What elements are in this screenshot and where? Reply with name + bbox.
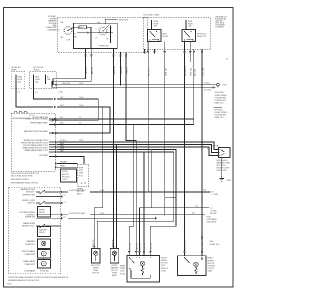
switch S2 labels — [95, 23, 109, 48]
svg-text:RELAY: RELAY — [39, 231, 46, 234]
svg-text:PUMP RLY: PUMP RLY — [25, 244, 35, 246]
svg-text:M: M — [43, 254, 45, 256]
svg-text:M: M — [43, 264, 45, 266]
svg-text:RELAY CTRL *: RELAY CTRL * — [22, 225, 35, 228]
svg-text:REAR WASH PUMP CTRL: REAR WASH PUMP CTRL — [25, 149, 49, 152]
svg-text:PPL 228: PPL 228 — [129, 243, 131, 250]
svg-text:S208: S208 — [223, 85, 227, 87]
rotary switch S1 — [63, 26, 72, 35]
svg-text:OR ACC: OR ACC — [33, 69, 41, 72]
lower box row CHIME SIG — [25, 217, 63, 220]
diode row label — [25, 240, 35, 246]
switch assembly SW1 dashed box — [57, 17, 147, 52]
rotary switch S2 — [98, 25, 109, 36]
svg-text:C200: C200 — [100, 213, 104, 215]
wire resistor to inner node — [87, 27, 92, 48]
wire branch to right splice — [151, 206, 217, 215]
svg-text:CHIME SIG: CHIME SIG — [25, 217, 36, 219]
fuse F1 — [151, 20, 159, 28]
svg-text:GRA 941: GRA 941 — [112, 239, 115, 247]
svg-text:HOT AT ALL TIMES: HOT AT ALL TIMES — [144, 14, 161, 17]
wire fuse F5 stub — [45, 81, 47, 84]
svg-text:C202: C202 — [79, 97, 83, 99]
front wiper motor label — [161, 257, 169, 272]
ground G304 — [220, 179, 231, 183]
svg-text:DK GRN 92: DK GRN 92 — [185, 240, 187, 250]
svg-text:C1: C1 — [79, 123, 81, 125]
svg-text:YEL: YEL — [60, 97, 63, 99]
wire row D long — [32, 116, 194, 120]
module box M1 — [61, 169, 77, 182]
wire switch pin D to long feed wire — [119, 52, 123, 85]
wire switch pin E down to wiper motor — [125, 52, 136, 256]
band wire 3 to washer motor box — [57, 145, 219, 155]
lower box row INT WIPE DELAY — [20, 211, 63, 217]
lower box row WASH PUMP — [22, 222, 61, 228]
wire switch pin C down to washer pump — [112, 49, 116, 249]
lower box row WIPER LO/INT — [22, 200, 63, 205]
svg-text:150: 150 — [195, 206, 198, 208]
wire relay K2 stub — [189, 42, 193, 77]
svg-text:C2: C2 — [18, 92, 20, 94]
svg-text:COMPART: COMPART — [215, 26, 225, 29]
svg-text:YEL 240: YEL 240 — [121, 67, 123, 74]
svg-text:WASHER PUMP: WASHER PUMP — [217, 161, 231, 164]
band wire 4a branch — [140, 150, 152, 256]
fuse F5 — [45, 75, 51, 82]
svg-text:WIPER PARK FEED: WIPER PARK FEED — [30, 122, 48, 125]
pump row label — [22, 250, 36, 256]
band wire WIPER HI/LO RELAY CTRL — [24, 139, 57, 143]
svg-text:FLUID: FLUID — [120, 273, 126, 275]
wire branch to washer pump left — [94, 107, 102, 249]
lamp L1 label — [91, 265, 101, 275]
lamp L2 left label — [120, 265, 126, 276]
svg-text:OFF: OFF — [60, 22, 64, 24]
svg-text:WASHER: WASHER — [39, 229, 48, 232]
svg-text:C2: C2 — [35, 92, 37, 94]
front wiper motor box — [127, 256, 160, 283]
lamp L1 wires — [93, 240, 95, 248]
washer motor box — [219, 148, 231, 158]
svg-text:WASHER: WASHER — [27, 240, 36, 243]
svg-text:WASH: WASH — [120, 265, 126, 268]
svg-text:ASSY: ASSY — [112, 274, 118, 277]
relay K2 box — [182, 30, 196, 42]
svg-text:C4: C4 — [226, 59, 228, 61]
svg-text:C202: C202 — [79, 83, 83, 85]
wire F2 to K2 — [185, 26, 187, 29]
wire int wipe to junction — [63, 212, 205, 215]
wiper switch dashed box — [11, 113, 55, 171]
svg-text:C100: C100 — [59, 92, 63, 94]
note text below wiper switch box — [11, 173, 40, 181]
band wire FRONT WIPER ON/OFF CTRL — [21, 143, 57, 146]
inner box relay R3 — [38, 207, 51, 218]
svg-text:WASHER PUMP: WASHER PUMP — [20, 188, 35, 191]
feed wire row A2 — [58, 86, 216, 91]
svg-text:ORG 144: ORG 144 — [202, 241, 204, 250]
svg-text:LOGIC: LOGIC — [62, 179, 68, 181]
svg-text:DELAY WIPER: DELAY WIPER — [215, 94, 228, 97]
flasher dashed box — [78, 164, 89, 187]
relay K2 label — [197, 34, 207, 39]
svg-text:WIPER HI SW: WIPER HI SW — [23, 195, 36, 197]
wire top corner — [105, 19, 117, 24]
right margin text block 1 — [215, 92, 228, 104]
wire row E long — [30, 122, 194, 126]
svg-text:PAGE 10-1: PAGE 10-1 — [215, 102, 224, 105]
svg-text:PNK 92: PNK 92 — [127, 67, 129, 74]
svg-text:ORG 144: ORG 144 — [203, 67, 205, 76]
wire lamp2 right feed — [116, 144, 117, 249]
svg-text:COWL: COWL — [161, 270, 166, 272]
svg-text:INT WIPE DELAY: INT WIPE DELAY — [20, 211, 36, 214]
svg-text:RELAY CTL: RELAY CTL — [197, 35, 207, 38]
relay K1 box — [148, 30, 162, 42]
switch S1 position labels — [58, 22, 79, 41]
svg-text:C1: C1 — [64, 201, 66, 203]
svg-text:DIAGRAM: DIAGRAM — [48, 28, 57, 31]
band wire 4 jog down — [57, 148, 176, 256]
splice S240 text — [207, 216, 218, 223]
inner solid box of switch assembly — [74, 23, 118, 48]
svg-text:REAR: REAR — [208, 257, 214, 260]
svg-text:BLK 941: BLK 941 — [194, 69, 196, 76]
svg-text:LOW WASH: LOW WASH — [24, 270, 35, 273]
svg-text:PAGE 10-2: PAGE 10-2 — [215, 116, 224, 119]
lamp L2 wires tick — [112, 239, 115, 248]
right margin stub wire — [214, 107, 222, 109]
svg-text:PPL 228: PPL 228 — [149, 69, 151, 76]
svg-text:LT BLU: LT BLU — [204, 83, 211, 85]
flasher label below — [77, 189, 84, 196]
lamp L2 box — [110, 249, 119, 264]
svg-text:BLK 150: BLK 150 — [140, 243, 142, 250]
front wiper motor ticks and labels — [128, 243, 153, 253]
wire fuse F3 down to row — [16, 84, 53, 107]
svg-text:COMPUTER DATA LINES AND POWER: COMPUTER DATA LINES AND POWER DISTRIBUTI… — [8, 276, 69, 279]
relay K1 label — [163, 34, 170, 39]
fuse block FB dashed box — [143, 18, 210, 50]
svg-text:TIMES: TIMES — [11, 70, 17, 72]
fuse F3 — [16, 75, 24, 85]
svg-text:LO: LO — [58, 30, 61, 32]
wire row to flasher 2 — [56, 164, 78, 168]
svg-text:RELAY: RELAY — [163, 35, 170, 38]
svg-text:GRY 93: GRY 93 — [86, 67, 88, 74]
svg-text:SWITCH: SWITCH — [27, 203, 35, 205]
svg-text:BLU 94: BLU 94 — [92, 67, 94, 74]
svg-text:B+ ⍁: B+ ⍁ — [207, 147, 212, 150]
band wire FRONT WASH PUMP CTRL — [23, 144, 56, 148]
svg-text:DK BLU: DK BLU — [60, 140, 67, 142]
washer pump motor M3 — [38, 260, 51, 269]
svg-text:* WITH WASHER RELAY OPTION: * WITH WASHER RELAY OPTION — [10, 182, 38, 185]
inner box diode D1 — [38, 239, 51, 249]
svg-text:10A: 10A — [47, 78, 51, 81]
splice end text 1 — [212, 192, 219, 197]
lamp L2 label — [111, 265, 120, 277]
svg-text:BATTERY POSITIVE FEED: BATTERY POSITIVE FEED — [24, 130, 49, 133]
wire stub from fuse block — [144, 49, 146, 53]
svg-text:REAR WASH: REAR WASH — [23, 260, 35, 263]
svg-text:PUMP MTR: PUMP MTR — [25, 264, 36, 266]
right text block under motor — [217, 160, 231, 172]
wire delay feed — [75, 32, 114, 36]
svg-text:PARK: PARK — [60, 164, 66, 167]
lower switch dashed box — [9, 187, 61, 274]
svg-text:HAZARD: HAZARD — [60, 161, 68, 164]
fuse box dashed left B — [30, 72, 57, 89]
wire relay K1 pin to lower junction — [164, 42, 168, 215]
svg-text:BLK 150: BLK 150 — [93, 240, 95, 247]
lamp L1 box — [92, 249, 101, 264]
right margin text block 2 — [215, 109, 228, 119]
svg-text:YEL 240: YEL 240 — [151, 243, 153, 250]
svg-text:SEPARATE PAGES IN THIS SECTION: SEPARATE PAGES IN THIS SECTION — [8, 279, 40, 282]
feed wire row B into switch — [53, 97, 99, 121]
svg-text:PPL: PPL — [60, 117, 63, 119]
svg-text:WIPER SW: WIPER SW — [99, 46, 109, 48]
fuse F4 — [33, 75, 41, 85]
svg-text:RIGHT SIDE: RIGHT SIDE — [217, 170, 228, 172]
svg-text:WIPER PARK SW: WIPER PARK SW — [32, 116, 48, 119]
svg-text:RELAY: RELAY — [39, 211, 46, 214]
svg-text:C1: C1 — [79, 117, 81, 119]
switch row wire y=120.4 — [26, 119, 57, 122]
svg-text:DELAY SYS: DELAY SYS — [210, 243, 221, 246]
rear wiper motor label — [208, 257, 216, 273]
svg-text:C2: C2 — [64, 217, 66, 219]
splice S302 label — [201, 237, 220, 246]
fuse box dashed left A — [11, 72, 25, 89]
svg-text:B EXTERIOR LAMP: B EXTERIOR LAMP — [69, 189, 86, 192]
svg-text:C202: C202 — [79, 105, 83, 107]
svg-text:SEE WIPER DETAILS: SEE WIPER DETAILS — [11, 178, 30, 181]
svg-text:B: B — [75, 34, 77, 36]
svg-text:SPLICE: SPLICE — [210, 213, 217, 215]
svg-text:C2: C2 — [64, 195, 66, 197]
page border frame — [4, 8, 234, 288]
svg-text:ELECTRIC: ELECTRIC — [211, 146, 221, 148]
connector C100 marks — [56, 84, 63, 94]
svg-text:SWITCH *: SWITCH * — [26, 192, 35, 194]
last row label — [24, 270, 49, 273]
svg-text:MOTOR: MOTOR — [92, 273, 99, 275]
svg-text:BRN 241: BRN 241 — [114, 66, 116, 74]
title text block — [46, 15, 58, 31]
switch row wire y=133 — [24, 130, 57, 134]
wire diode to pump link — [43, 249, 45, 250]
wire relay K2 down to front lamp switch — [183, 42, 187, 256]
rear wiper ticks and labels — [183, 240, 204, 253]
wire switch pin B down-left to connector — [52, 49, 94, 88]
wire relay K1 down to right splice row — [147, 42, 151, 193]
wire stub 2 from fuse block — [154, 49, 156, 53]
band wire REAR WIPER MOTOR CTRL — [22, 147, 56, 151]
wire fuse F2 branch down — [193, 49, 197, 124]
svg-text:FRONT WASH: FRONT WASH — [22, 250, 36, 253]
band wire 1 to washer motor box — [57, 140, 219, 149]
svg-text:DELAY WIPER: DELAY WIPER — [215, 111, 228, 114]
wire washer switch to splice right — [63, 189, 211, 192]
svg-text:WASHER: WASHER — [111, 266, 120, 269]
svg-text:INT: INT — [61, 37, 65, 39]
svg-text:WHT 92: WHT 92 — [144, 243, 146, 250]
washer motor ground wire — [221, 158, 223, 179]
washer pump motor M2 — [38, 250, 51, 259]
svg-text:LO HI: LO HI — [66, 40, 71, 42]
svg-text:INT WIPE: INT WIPE — [39, 155, 48, 157]
label HOT IN RUN — [33, 67, 44, 72]
inner box relay R4 — [38, 227, 51, 237]
svg-text:DK GRN: DK GRN — [204, 90, 212, 92]
svg-text:ASSY: ASSY — [77, 193, 83, 196]
band wire 2 to washer motor box — [57, 143, 219, 153]
lower box row WASHER PUMP — [20, 188, 62, 194]
short row to flasher — [39, 155, 84, 164]
wire branch to wiper motor pin 1 — [129, 125, 134, 256]
svg-text:17506: 17506 — [7, 284, 12, 286]
wire with arrow in switch box — [110, 26, 112, 44]
svg-text:254: 254 — [203, 190, 206, 192]
svg-text:HI: HI — [107, 39, 109, 41]
svg-text:GRA 143: GRA 143 — [164, 68, 167, 76]
svg-text:INDICATOR: INDICATOR — [207, 221, 217, 224]
band wire 5 jog down — [57, 149, 174, 248]
svg-text:C200: C200 — [100, 190, 104, 192]
svg-text:PUMP MTR: PUMP MTR — [25, 254, 36, 256]
connector arcs on box top — [14, 111, 34, 116]
band wire 5a branch to wiper motor — [143, 152, 145, 256]
svg-text:241: 241 — [192, 213, 195, 215]
wire pump link 2 — [43, 258, 45, 260]
fuse F2 — [186, 20, 194, 28]
bottom note text — [8, 276, 69, 282]
fuse block label right — [215, 17, 227, 29]
jumper wire to relay feed — [164, 197, 176, 198]
feed wire row A — [55, 83, 217, 85]
svg-text:B EXTERIOR LAMP: B EXTERIOR LAMP — [69, 212, 86, 215]
feed wire row C into switch — [53, 105, 111, 134]
wire fuse block to rear lamp switch — [201, 49, 205, 256]
svg-text:WASH PUMP: WASH PUMP — [23, 222, 36, 225]
svg-text:G304: G304 — [227, 180, 231, 182]
lower box row WIPER HI SW — [23, 195, 63, 198]
svg-text:SEE FUSE: SEE FUSE — [119, 19, 129, 21]
svg-text:GATE: GATE — [208, 270, 214, 273]
label HOT AT ALL TIMES left — [11, 66, 21, 72]
splice symbol on row A — [217, 84, 227, 87]
svg-text:LO: LO — [95, 38, 98, 40]
svg-text:C202: C202 — [79, 140, 83, 142]
wire F1 to K1 — [151, 26, 153, 29]
svg-text:LOW WASH: LOW WASH — [207, 218, 218, 221]
svg-text:FLUID SW: FLUID SW — [40, 271, 49, 273]
wire row to flasher 1 — [56, 161, 78, 165]
band wire REAR WASH PUMP CTRL — [25, 149, 57, 153]
svg-text:GRY 93: GRY 93 — [136, 243, 138, 250]
svg-text:LT GRN: LT GRN — [212, 194, 219, 196]
pump row label 2 — [23, 260, 35, 266]
washer motor pin labels — [207, 146, 220, 151]
svg-text:MULTI-FUNCTION LEVER: MULTI-FUNCTION LEVER — [11, 176, 33, 178]
resistor block R1 — [79, 26, 87, 29]
wire fuse F4 down to row — [34, 84, 54, 99]
svg-text:ORG 240: ORG 240 — [62, 83, 70, 85]
rear wiper motor box — [178, 256, 207, 276]
wire switch pin A down-left to connector — [53, 49, 88, 85]
wire switch S1 to resistor block — [73, 26, 79, 28]
svg-text:WHT 228: WHT 228 — [191, 68, 193, 76]
svg-text:PCB: PCB — [79, 175, 83, 177]
wire chime to module — [68, 217, 157, 219]
svg-text:DK GRN 92: DK GRN 92 — [185, 66, 187, 76]
